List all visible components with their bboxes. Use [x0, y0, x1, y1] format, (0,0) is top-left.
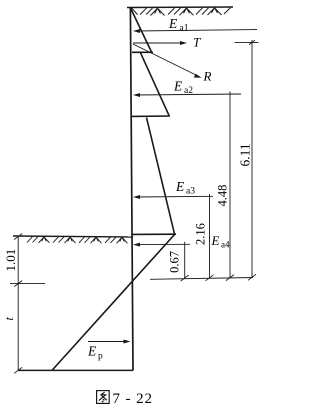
E_a4 arrow — [133, 243, 190, 247]
svg-text:E: E — [173, 79, 183, 94]
svg-text:a4: a4 — [221, 240, 230, 250]
left dimension line (1.01 / t) — [10, 234, 45, 374]
ground line left (dredge) — [13, 236, 132, 237]
wall base line — [18, 369, 133, 371]
R reaction arrow — [133, 44, 202, 78]
E_a1 pressure diagonal — [131, 8, 152, 52]
svg-text:T: T — [193, 35, 201, 50]
E_a2 pressure diagonal — [141, 53, 170, 116]
svg-text:7 - 22: 7 - 22 — [113, 391, 153, 407]
E_a2 bottom boundary — [132, 115, 170, 117]
T anchor arrow — [133, 41, 187, 45]
E_a1 bottom boundary — [132, 51, 153, 53]
svg-text:a3: a3 — [186, 187, 195, 197]
E_a3 arrow — [133, 195, 213, 199]
svg-text:2.16: 2.16 — [194, 223, 208, 245]
svg-text:1.01: 1.01 — [3, 249, 18, 272]
glyph 图 drawn as strokes — [97, 391, 110, 404]
svg-text:t: t — [2, 317, 16, 321]
ground hatch left — [27, 237, 128, 244]
dimension line 6.11 — [235, 40, 259, 280]
dimension line 4.48 — [226, 92, 234, 281]
svg-text:E: E — [175, 179, 185, 194]
svg-text:a2: a2 — [184, 86, 193, 96]
svg-text:6.11: 6.11 — [237, 143, 252, 166]
svg-text:E: E — [168, 16, 178, 31]
svg-text:R: R — [203, 69, 212, 84]
svg-text:a1: a1 — [180, 24, 189, 34]
dimension line 2.16 — [206, 194, 214, 281]
E_a3 pressure diagonal — [147, 118, 175, 234]
bottom dimension reference line — [150, 278, 253, 280]
E_p arrow — [88, 340, 131, 344]
svg-text:E: E — [87, 344, 97, 359]
svg-text:E: E — [211, 233, 220, 248]
svg-text:4.48: 4.48 — [216, 185, 230, 207]
ground line top right — [127, 6, 233, 9]
E_a1 arrow — [133, 29, 257, 33]
E_a2 arrow — [133, 93, 241, 97]
svg-text:0.67: 0.67 — [168, 251, 182, 273]
dimension line 0.67 — [181, 242, 189, 281]
svg-text:p: p — [98, 352, 103, 362]
caption 图 7-22 — [97, 391, 153, 407]
net pressure diagonal (E_a4 / E_p hypotenuse) — [52, 234, 175, 370]
sheet pile wall — [130, 8, 133, 371]
ground hatch top right — [132, 8, 231, 16]
E_a3 bottom boundary — [132, 233, 176, 235]
